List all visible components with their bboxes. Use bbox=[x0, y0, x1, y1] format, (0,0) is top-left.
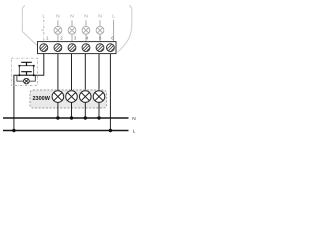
switch tick on terminal 1 wire bbox=[41, 29, 44, 31]
svg-text:L: L bbox=[133, 128, 136, 134]
wire load lamp 2 to N rail bbox=[71, 102, 73, 118]
indicator lamp bbox=[24, 78, 30, 84]
wire terminal 5 to load lamp 4 bbox=[98, 54, 100, 91]
junction load lamp 1 on N bbox=[56, 116, 59, 119]
pushbutton unit dash-dot box bbox=[12, 58, 38, 85]
terminal block bbox=[38, 42, 117, 54]
L rail bbox=[3, 130, 129, 132]
junction load lamp 2 on N bbox=[70, 116, 73, 119]
junction load lamp 4 on N bbox=[97, 116, 100, 119]
lamp symbol terminal 3 bbox=[68, 26, 76, 34]
wire load lamp 4 to N rail bbox=[98, 102, 100, 118]
svg-text:N: N bbox=[56, 14, 60, 20]
indicator branch wire bbox=[17, 75, 35, 81]
screw terminal 4 bbox=[81, 42, 93, 54]
junction load lamp 3 on N bbox=[84, 116, 87, 119]
device outline left bbox=[22, 6, 39, 48]
lamp symbol terminal 5 bbox=[96, 26, 104, 34]
screw terminal 6 bbox=[106, 42, 118, 54]
wire terminal 6 to L rail bbox=[109, 54, 111, 131]
load lamp 1 bbox=[52, 91, 64, 103]
device outline right bbox=[117, 6, 131, 53]
riser wires top pushbutton bbox=[19, 66, 33, 76]
pushbutton S1 bridge bbox=[19, 65, 33, 67]
wire load lamp 1 to N rail bbox=[57, 102, 59, 118]
svg-text:N: N bbox=[70, 14, 74, 20]
load lamp 2 bbox=[66, 91, 78, 103]
lamp symbol terminal 4 bbox=[82, 26, 90, 34]
pushbutton S2 actuator bbox=[21, 72, 32, 76]
screw terminal 5 bbox=[95, 42, 107, 54]
pushbutton S1 actuator bbox=[21, 62, 32, 65]
screw terminal 2 bbox=[53, 42, 65, 54]
svg-text:N: N bbox=[84, 14, 88, 20]
screw terminal 3 bbox=[67, 42, 79, 54]
lamp symbol terminal 2 bbox=[54, 26, 62, 34]
pushbutton S1 contacts bbox=[19, 65, 21, 67]
wire above lamp 2 bbox=[57, 20, 59, 41]
load box 2300W bbox=[30, 90, 107, 108]
load lamp 4 bbox=[93, 91, 105, 103]
pushbutton S2 contacts bbox=[19, 74, 21, 76]
junction terminal 6 wire on L bbox=[109, 129, 112, 132]
svg-text:N: N bbox=[132, 116, 136, 122]
wire terminal 3 to load lamp 2 bbox=[71, 54, 73, 91]
wire above lamp 3 bbox=[71, 20, 73, 41]
svg-text:2300W: 2300W bbox=[33, 96, 51, 102]
dash-dot wire to terminal 1 bbox=[43, 20, 45, 42]
junction pushbutton wire on L bbox=[12, 129, 15, 132]
wire terminal 2 to load lamp 1 bbox=[57, 54, 59, 91]
wire to terminal 6 bbox=[113, 20, 115, 42]
wire terminal 4 to load lamp 3 bbox=[84, 54, 86, 91]
wire load lamp 3 to N rail bbox=[84, 102, 86, 118]
wire terminal 1 to pushbutton unit and L rail bbox=[14, 54, 44, 131]
svg-text:L: L bbox=[42, 14, 45, 20]
wire above lamp 4 bbox=[85, 20, 87, 41]
screw terminal 1 bbox=[39, 42, 51, 54]
pushbutton S2 bridge on main wire bbox=[19, 74, 33, 76]
load lamp 3 bbox=[80, 91, 92, 103]
svg-text:N: N bbox=[98, 14, 102, 20]
svg-text:L: L bbox=[112, 14, 115, 20]
N rail bbox=[3, 117, 129, 119]
wire above lamp 5 bbox=[99, 20, 101, 41]
